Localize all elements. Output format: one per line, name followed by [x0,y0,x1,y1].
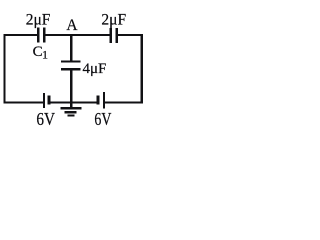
svg-text:4μF: 4μF [83,61,107,77]
wire bottom-left segment [3,101,43,103]
svg-text:6V: 6V [36,109,55,129]
battery right 6V [97,92,105,109]
capacitor C2 (right 2uF) [109,28,118,43]
capacitor 4uF [61,60,80,70]
wire top-middle segment [46,34,110,36]
wire top-left segment [3,34,37,36]
svg-text:2μF: 2μF [26,12,51,29]
wire node A stem [70,36,72,61]
capacitor C1 [37,28,46,43]
svg-text:C1: C1 [33,44,48,62]
wire top-right segment [118,34,143,36]
wire bottom-middle segment [51,101,97,103]
wire bottom-right segment [105,101,143,103]
wire right side [141,34,143,104]
svg-text:A: A [66,17,78,34]
svg-text:2μF: 2μF [101,12,126,29]
ground [61,107,82,117]
wire left side [3,34,5,104]
wire stem 4uF to ground [70,71,72,108]
svg-text:6V: 6V [94,109,111,129]
battery left 6V [43,93,51,108]
